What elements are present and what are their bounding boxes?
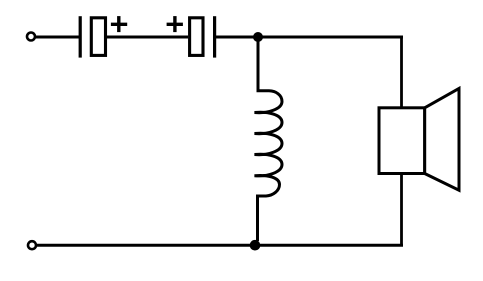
- wire speaker to bottom rail: [400, 175, 403, 247]
- wire top-right corner down to speaker: [400, 36, 403, 107]
- output terminal (bottom left): [28, 241, 36, 249]
- wire input terminal to C1: [36, 36, 80, 39]
- capacitor C2 plate: [213, 16, 216, 57]
- C2 polarity plus: [167, 16, 183, 32]
- capacitor C1 plate: [79, 16, 82, 57]
- wire C2 to top-right corner: [215, 36, 403, 39]
- speaker LS1 cone: [425, 89, 459, 191]
- speaker LS1 body: [379, 108, 425, 174]
- wire C1 to C2: [107, 36, 188, 39]
- C1 polarity plus: [111, 16, 127, 32]
- inductor L1: [255, 41, 283, 241]
- bottom rail wire: [37, 244, 404, 247]
- input terminal (top left): [27, 33, 35, 41]
- capacitor C2 body: [190, 18, 203, 56]
- node junction dot (bottom): [250, 240, 261, 251]
- node junction dot (top): [253, 32, 263, 42]
- capacitor C1 body: [91, 18, 105, 56]
